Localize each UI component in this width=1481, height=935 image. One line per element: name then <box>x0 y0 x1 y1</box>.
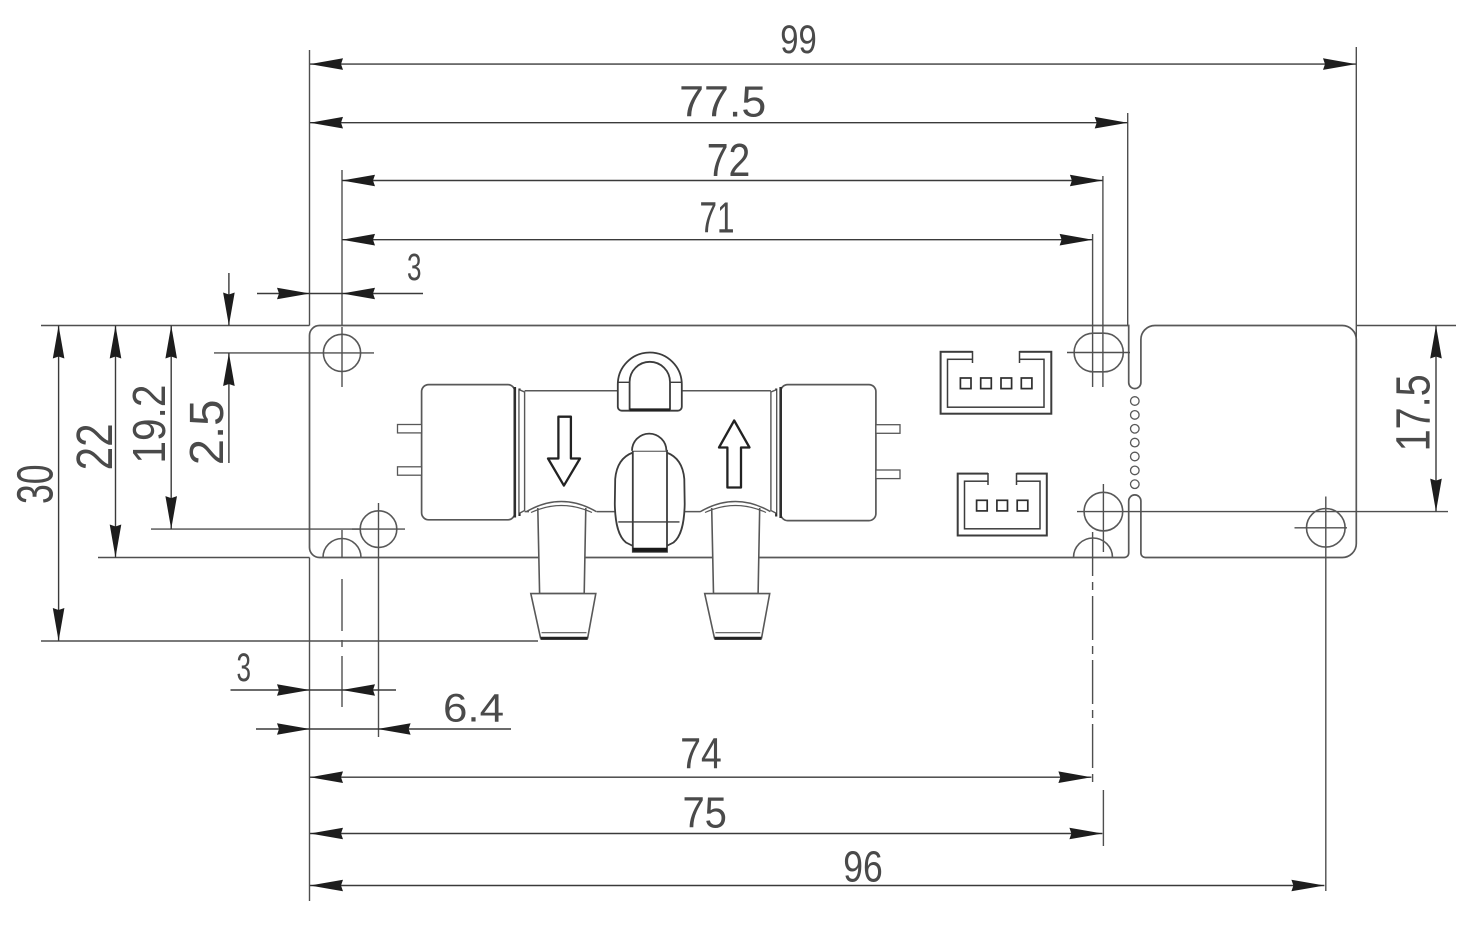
motor left pin 1 <box>398 425 422 433</box>
dimension 71 <box>342 239 1093 241</box>
svg-text:22: 22 <box>66 423 123 470</box>
dimension 30 <box>58 326 60 642</box>
mouse-bite perforation circles <box>1131 397 1140 489</box>
svg-text:2.5: 2.5 <box>181 400 234 466</box>
svg-text:74: 74 <box>680 730 722 779</box>
extension line y=529.1 for dim 19.2 <box>151 528 360 530</box>
center pipe <box>633 451 667 552</box>
dimension 96 <box>310 885 1324 887</box>
mounting hole on tab <box>1307 509 1346 548</box>
pump body bottom edge segments <box>525 511 529 513</box>
motor left <box>422 385 515 520</box>
motor right pin 2 <box>876 470 900 479</box>
hose fitting left <box>538 508 586 594</box>
extension line x=1356.3 (dim 99) <box>1355 47 1357 360</box>
svg-text:30: 30 <box>7 465 64 505</box>
mounting hole top-left <box>323 334 360 371</box>
extension line x=1127.7 (dim 77.5) <box>1127 113 1129 326</box>
dimension 74 <box>310 776 1091 778</box>
dimension 99 <box>310 63 1356 65</box>
pump body top edge <box>525 390 618 392</box>
extension line y=511.6 to the right for dim 17.5 <box>1077 511 1448 513</box>
svg-text:77.5: 77.5 <box>679 78 766 127</box>
extension centerline x=378.5 below board <box>378 503 380 737</box>
half-hole notch bottom-left <box>323 539 361 558</box>
connector 4-pin <box>941 352 1052 414</box>
dimension 75 <box>310 833 1102 835</box>
motor right pin 1 <box>876 425 900 434</box>
panel outline (main board + rout slots + breakaway tab) <box>310 326 1357 558</box>
extension line y=641 for dim 30 <box>41 640 538 642</box>
svg-text:75: 75 <box>682 789 727 838</box>
mounting hole lower-left <box>360 511 397 548</box>
4-pin pins <box>960 378 971 389</box>
motor left pin 2 <box>398 467 422 475</box>
extension line tab top edge right for dim 17.5 <box>1356 325 1456 327</box>
svg-text:96: 96 <box>843 842 883 891</box>
mounting hole lower-right <box>1084 492 1123 531</box>
svg-text:3: 3 <box>407 247 422 289</box>
dimension 3 bottom <box>231 689 397 691</box>
dimension 3 top <box>257 293 423 295</box>
center pipe clamp lobes <box>615 453 633 547</box>
flow arrow up <box>719 421 750 488</box>
extension line x=1102.9 (dim 72) <box>1102 176 1104 387</box>
dimension 19.2 <box>170 326 172 530</box>
dimension 17.5 <box>1435 326 1437 512</box>
3-pin pins <box>977 500 988 511</box>
dimension 2.5 <box>228 273 230 326</box>
dimension 72 <box>342 180 1103 182</box>
hose fitting right <box>712 508 760 594</box>
flow arrow down <box>548 417 580 486</box>
connector 3-pin <box>958 474 1047 536</box>
svg-text:6.4: 6.4 <box>443 686 504 730</box>
extension line x=1092.6 (dim 71) <box>1092 234 1094 387</box>
extension centerline x=1325.8 below board (dim 96) <box>1325 497 1327 892</box>
extension line y=557.5 for dim 22 <box>98 557 310 559</box>
extension line x=310 below board <box>309 558 311 902</box>
motor right <box>781 385 876 521</box>
svg-text:72: 72 <box>707 134 751 186</box>
extension line top board edge (left) <box>41 325 310 327</box>
extension line x=310 above board <box>309 50 311 326</box>
svg-text:99: 99 <box>780 18 817 62</box>
extension centerline x=342 below board (dashed) <box>341 530 343 558</box>
extension centerline x=1102.9 below board (dashed, dim 75) <box>1102 484 1104 552</box>
extension centerline x=1092.6 below board (dashed, dim 74) <box>1092 532 1094 784</box>
svg-text:71: 71 <box>700 194 735 243</box>
dimension 22 <box>115 326 117 558</box>
svg-text:3: 3 <box>236 646 251 690</box>
svg-text:17.5: 17.5 <box>1388 374 1441 451</box>
top pipe clamp (omega) <box>618 353 682 411</box>
half-hole notch bottom-right <box>1074 538 1113 558</box>
slot hole top-right (obround) <box>1074 333 1123 372</box>
extension line x=342 above board <box>341 170 343 326</box>
dimension 6.4 <box>256 728 511 730</box>
svg-text:19.2: 19.2 <box>123 385 175 464</box>
dimension 77.5 <box>310 122 1128 124</box>
